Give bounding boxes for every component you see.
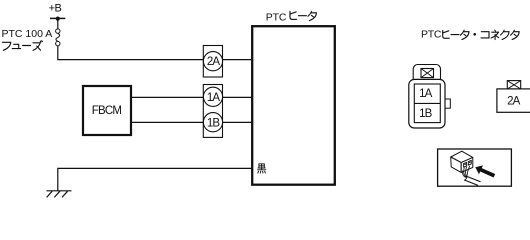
wire FBCM to pin 1B: [132, 121, 252, 123]
svg-text:1B: 1B: [419, 108, 432, 120]
legend connector terminals: [464, 160, 472, 167]
svg-text:PTC: PTC: [421, 29, 442, 41]
connector J1 (1A/1B) lock tab: [413, 65, 440, 85]
svg-text:1A: 1A: [419, 88, 432, 100]
pin 1A / 1B connector block: [203, 85, 222, 138]
legend view arrow: [475, 165, 495, 177]
svg-text:PTC: PTC: [266, 11, 287, 23]
FBCM module U1: [83, 86, 131, 135]
wire fuse to pin 2A: [58, 46, 252, 60]
svg-text:2A: 2A: [207, 56, 220, 68]
wire ground to PTC heater (black): [58, 168, 252, 190]
wire color label kuro (black): [257, 164, 265, 173]
connector J2 body (clipped at right edge): [497, 89, 530, 112]
label PTC 100 A fuse: [2, 28, 53, 50]
label PTC heater connector (header): [421, 29, 519, 41]
svg-text:FBCM: FBCM: [92, 105, 122, 117]
pin 2A connector block: [203, 46, 222, 78]
legend connector 3D icon: [451, 151, 473, 172]
wire +B to fuse: [57, 19, 59, 29]
connector J1 body: [409, 79, 445, 128]
fuse PTC 100 A: [56, 29, 60, 46]
wire FBCM to pin 1A: [132, 96, 252, 98]
view direction legend box: [438, 149, 512, 186]
svg-text:+B: +B: [49, 3, 62, 15]
svg-text:2A: 2A: [507, 95, 520, 107]
svg-text:PTC 100 A: PTC 100 A: [2, 28, 53, 40]
ground: [47, 191, 72, 198]
legend wires: [463, 166, 481, 186]
connector J1 side tab: [445, 99, 450, 108]
svg-text:1B: 1B: [207, 117, 220, 129]
connector J2 (2A) lock symbol: [507, 81, 520, 89]
svg-text:1A: 1A: [207, 92, 220, 104]
node +B: [49, 3, 66, 21]
PTC heater box: [252, 26, 335, 185]
label PTC heater: [266, 11, 317, 23]
